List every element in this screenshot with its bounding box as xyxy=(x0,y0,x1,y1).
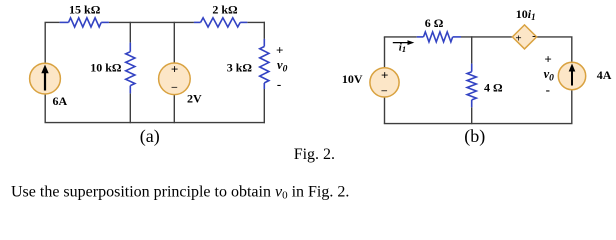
svg-text:-: - xyxy=(532,30,536,42)
wire: circuit (a) left edge xyxy=(44,22,46,122)
svg-text:Fig. 2.: Fig. 2. xyxy=(294,146,335,163)
dependent source 10i1 (diamond) xyxy=(512,25,536,49)
label 10i1 xyxy=(516,7,536,22)
svg-text:+: + xyxy=(381,68,388,83)
svg-text:-: - xyxy=(546,82,550,97)
wire: circuit (a) bottom xyxy=(45,122,266,124)
voltage source 10V (circle with + and -) xyxy=(370,68,399,98)
svg-text:+: + xyxy=(544,52,551,67)
svg-text:Use the superposition principl: Use the superposition principle to obtai… xyxy=(11,184,349,202)
svg-text:v0: v0 xyxy=(277,58,288,74)
wire: circuit (a) top segments xyxy=(45,21,266,23)
resistor 15 kOhm (top-left horizontal) xyxy=(60,18,109,27)
svg-text:(b): (b) xyxy=(464,126,485,147)
problem statement xyxy=(11,184,349,202)
resistor 6 Ohm (top horizontal of b) xyxy=(417,32,461,42)
current arrow i1 xyxy=(393,40,415,45)
svg-text:15 kΩ: 15 kΩ xyxy=(69,2,101,16)
wire: circuit (b) left edge xyxy=(384,37,386,124)
svg-text:2 kΩ: 2 kΩ xyxy=(212,2,238,16)
label 15 kOhm xyxy=(69,2,101,16)
svg-text:4A: 4A xyxy=(597,68,612,82)
label 2V xyxy=(187,92,202,106)
svg-text:(a): (a) xyxy=(140,126,160,147)
svg-text:–: – xyxy=(381,85,388,97)
wire: 2V source branch xyxy=(173,22,175,123)
svg-text:+: + xyxy=(276,42,283,57)
voltage source 2V (circle with + and -) xyxy=(159,62,191,95)
wire: circuit (b) top segments xyxy=(384,36,573,38)
label 6A xyxy=(53,94,68,108)
label 2 kOhm xyxy=(212,2,238,16)
wire: 10 kOhm branch stubs xyxy=(129,22,131,123)
wire: 4 Ohm branch stubs xyxy=(471,36,473,124)
svg-text:10 kΩ: 10 kΩ xyxy=(90,60,122,74)
label i1 xyxy=(399,41,406,54)
resistor 3 kOhm (right edge vertical) xyxy=(260,39,269,89)
svg-text:+: + xyxy=(171,62,178,77)
resistor 2 kOhm (top-right horizontal) xyxy=(194,18,247,27)
label 4A xyxy=(597,68,612,82)
caption Fig. 2. xyxy=(294,146,335,163)
label 10 kOhm xyxy=(90,60,122,74)
svg-text:+: + xyxy=(515,33,521,45)
svg-text:2V: 2V xyxy=(187,92,202,106)
current source 6A (circle with up arrow) xyxy=(30,63,61,94)
svg-text:6 Ω: 6 Ω xyxy=(425,16,444,30)
wire: circuit (b) bottom xyxy=(384,123,573,125)
wire: circuit (b) right edge xyxy=(571,37,573,124)
svg-text:–: – xyxy=(171,81,178,93)
current source 4A (circle with up arrow) xyxy=(558,62,585,89)
resistor 4 Ohm (vertical middle branch of b) xyxy=(467,64,476,108)
label (a) xyxy=(140,126,160,147)
wire: right edge stubs of (a) xyxy=(263,22,265,123)
label 3 kOhm xyxy=(227,60,253,74)
svg-text:4 Ω: 4 Ω xyxy=(484,81,503,95)
svg-text:-: - xyxy=(277,77,281,92)
svg-text:i1: i1 xyxy=(399,41,406,54)
label 10V xyxy=(342,72,363,86)
svg-text:6A: 6A xyxy=(53,94,68,108)
label v0 polarity for circuit (a) xyxy=(276,42,288,91)
label (b) xyxy=(464,126,485,147)
label v0 polarity for circuit (b) xyxy=(544,52,555,97)
label 4 Ohm xyxy=(484,81,503,95)
svg-text:3 kΩ: 3 kΩ xyxy=(227,60,253,74)
svg-text:10i1: 10i1 xyxy=(516,7,536,22)
resistor 10 kOhm (vertical middle branch) xyxy=(126,43,135,94)
label 6 Ohm xyxy=(425,16,444,30)
svg-text:10V: 10V xyxy=(342,72,363,86)
